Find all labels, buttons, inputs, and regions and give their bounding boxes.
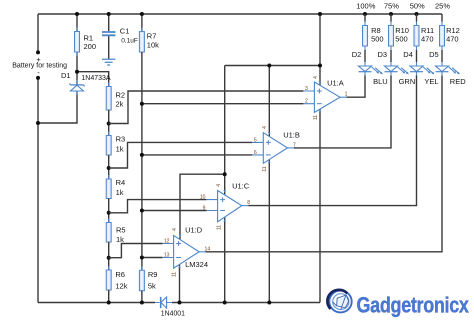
- resistor R1: [75, 28, 97, 57]
- svg-text:2: 2: [305, 99, 308, 105]
- node tap1 R2/R3: [107, 122, 111, 126]
- node D1 anode to rail junction: [36, 121, 40, 125]
- node V+ bus U1:B: [267, 64, 271, 68]
- svg-text:R4: R4: [116, 178, 126, 187]
- wire R9 top to U1:D pin13: [142, 257, 163, 259]
- wire R6 bottom to rail: [108, 290, 110, 303]
- wire sense to U1:B pin6: [142, 154, 252, 156]
- node rail U1:D gnd: [178, 301, 182, 305]
- node battery + terminal: [36, 50, 40, 54]
- svg-text:470: 470: [446, 34, 459, 43]
- node rail U1:B gnd: [267, 301, 271, 305]
- diode D1 zener 1N4733A: [61, 71, 111, 95]
- wire bottom rail right of diode: [172, 302, 320, 304]
- resistor R12: [440, 14, 460, 50]
- svg-text:2k: 2k: [116, 99, 124, 108]
- node rail R9: [140, 301, 144, 305]
- wire R7 column top: [141, 14, 143, 32]
- wire V+ bus: [225, 65, 320, 67]
- node top rail R10: [389, 12, 393, 16]
- svg-text:1N4001: 1N4001: [161, 310, 185, 317]
- node zener cathode junction: [75, 70, 79, 74]
- wire tap3 to U1:C pin10: [109, 200, 207, 213]
- svg-text:50%: 50%: [410, 2, 425, 11]
- wire U1:D pin4 jog: [180, 174, 225, 239]
- node top rail R8: [363, 12, 367, 16]
- svg-text:D4: D4: [403, 50, 413, 59]
- svg-text:GRN: GRN: [399, 77, 416, 86]
- svg-text:Gadgetronicx: Gadgetronicx: [357, 294, 470, 318]
- resistor R8: [363, 14, 384, 50]
- svg-text:RED: RED: [450, 77, 466, 86]
- node sense pin9: [140, 209, 144, 213]
- wire R1 column top: [76, 14, 78, 32]
- svg-text:D1: D1: [61, 71, 71, 80]
- svg-text:12: 12: [164, 238, 170, 244]
- svg-text:1k: 1k: [116, 188, 124, 197]
- svg-text:BLU: BLU: [373, 77, 388, 86]
- wire U1:B pin11 to rail: [268, 159, 270, 302]
- resistor R6: [106, 266, 128, 294]
- wire U1:D pin11 to rail: [179, 264, 181, 302]
- svg-text:500: 500: [371, 34, 384, 43]
- resistor R5: [106, 219, 125, 247]
- wire bottom rail left of diode: [38, 302, 155, 304]
- svg-text:11: 11: [217, 225, 223, 230]
- svg-text:U1:B: U1:B: [283, 131, 300, 140]
- svg-text:25%: 25%: [435, 2, 450, 11]
- wire sense to U1:A pin2: [142, 103, 304, 105]
- svg-text:1k: 1k: [116, 144, 124, 153]
- wire U1:C output to D4: [248, 76, 416, 206]
- svg-text:10k: 10k: [147, 41, 159, 50]
- wire U1:A pin4 column: [319, 14, 321, 85]
- op-amp U1:C: [200, 181, 250, 230]
- svg-text:5k: 5k: [148, 282, 156, 291]
- node U1:C pin4 / U1:D branch: [223, 172, 227, 176]
- capacitor C1: [102, 14, 138, 59]
- svg-text:9: 9: [203, 205, 206, 211]
- node V+ bus U1:A: [318, 64, 322, 68]
- op-amp U1:A: [303, 76, 347, 120]
- wire U1:B pin4 drop: [268, 66, 270, 137]
- svg-text:U1:A: U1:A: [327, 78, 344, 87]
- svg-text:13: 13: [164, 252, 170, 258]
- svg-text:500: 500: [395, 34, 408, 43]
- diode D6 1N4001 on negative rail: [155, 297, 185, 317]
- svg-text:R5: R5: [116, 225, 126, 234]
- resistor R4: [106, 175, 125, 203]
- wire U1:C pin4 drop: [224, 66, 226, 196]
- node rail U1:C gnd: [223, 301, 227, 305]
- svg-text:12k: 12k: [115, 282, 127, 291]
- svg-text:11: 11: [171, 272, 177, 277]
- svg-text:R7: R7: [147, 32, 157, 41]
- node rail R6: [107, 301, 111, 305]
- node tap4 R5/R6: [107, 256, 111, 260]
- wire zener node to R2 top: [77, 72, 109, 87]
- node top rail R7: [140, 12, 144, 16]
- resistor R3: [106, 132, 125, 160]
- wire R9 bottom to rail: [141, 291, 143, 303]
- node top rail R11: [415, 12, 419, 16]
- svg-text:R3: R3: [116, 134, 126, 143]
- logo gadgetronicx text: [357, 294, 470, 318]
- svg-text:4: 4: [216, 184, 222, 187]
- op-amp U1:B: [252, 126, 300, 172]
- svg-text:D3: D3: [378, 50, 388, 59]
- svg-text:U1:C: U1:C: [232, 181, 250, 190]
- wire tap4 to U1:D pin12: [109, 244, 163, 258]
- LED D2: [352, 50, 388, 86]
- svg-text:470: 470: [421, 34, 434, 43]
- resistor R11: [414, 14, 434, 50]
- wire tap2 to U1:B pin5: [109, 142, 253, 168]
- wire battery sense column R7 bottom to R9 top: [141, 52, 143, 270]
- svg-text:75%: 75%: [384, 2, 399, 11]
- svg-text:D2: D2: [352, 50, 362, 59]
- svg-text:R9: R9: [148, 270, 158, 279]
- svg-text:YEL: YEL: [424, 77, 438, 86]
- svg-text:4: 4: [172, 228, 178, 231]
- wire top rail: [38, 13, 442, 15]
- svg-text:100%: 100%: [356, 2, 376, 11]
- wire zener anode down and left to negative rail: [38, 91, 77, 123]
- svg-text:10: 10: [200, 195, 206, 201]
- resistor R2: [106, 83, 125, 115]
- svg-text:1N4733A: 1N4733A: [81, 75, 111, 82]
- svg-text:11: 11: [262, 166, 268, 171]
- resistor R10: [389, 14, 409, 50]
- svg-text:0.1uF: 0.1uF: [121, 38, 138, 45]
- resistor R9: [139, 266, 157, 294]
- svg-text:6: 6: [254, 150, 257, 156]
- node top rail V+: [318, 12, 322, 16]
- ground under C1: [102, 59, 115, 65]
- resistor R7: [139, 28, 159, 56]
- logo gadgetronicx icon: [327, 290, 351, 313]
- svg-text:R2: R2: [116, 90, 126, 99]
- svg-text:4: 4: [313, 76, 319, 79]
- wire left rail upper (battery +): [37, 14, 39, 52]
- svg-text:11: 11: [313, 115, 319, 120]
- LED D3: [378, 50, 416, 86]
- svg-text:D5: D5: [429, 50, 439, 59]
- svg-text:LM324: LM324: [185, 260, 208, 269]
- node sense pin13 / R9 top: [140, 256, 144, 260]
- wire R5 to R6: [108, 242, 110, 270]
- node tap3 R4/R5: [107, 211, 111, 215]
- wire U1:A pin11 to rail: [319, 109, 321, 303]
- wire U1:A output to D2: [347, 76, 366, 98]
- wire left rail lower (battery -): [37, 78, 39, 303]
- node top rail R1: [75, 12, 79, 16]
- svg-text:1k: 1k: [116, 235, 124, 244]
- node battery - terminal: [36, 76, 40, 80]
- node sense pin2: [140, 102, 144, 106]
- svg-text:3: 3: [305, 86, 308, 92]
- svg-text:5: 5: [254, 137, 257, 143]
- node sense pin6: [140, 153, 144, 157]
- wire R1 bottom to zener node: [76, 52, 78, 85]
- svg-text:R6: R6: [115, 270, 125, 279]
- wire tap1 to U1:A pin3: [109, 91, 304, 124]
- svg-text:4: 4: [262, 126, 268, 129]
- svg-text:U1:D: U1:D: [185, 225, 203, 234]
- svg-text:Battery for testing: Battery for testing: [12, 63, 67, 70]
- svg-text:C1: C1: [120, 27, 130, 36]
- node tap2 R3/R4: [107, 166, 111, 170]
- LED D5: [429, 50, 466, 86]
- LED D4: [403, 50, 438, 86]
- op-amp U1:D: [163, 225, 211, 277]
- wire R2 to R3: [108, 110, 110, 136]
- wire sense to U1:C pin9: [142, 210, 207, 212]
- svg-text:200: 200: [84, 42, 97, 51]
- wire U1:D output to D5: [206, 76, 443, 252]
- wire U1:C pin11 to rail: [224, 217, 226, 302]
- wire R3 to R4: [108, 155, 110, 179]
- node top rail C1: [107, 12, 111, 16]
- wire R4 to R5: [108, 199, 110, 223]
- wire U1:B output to D3: [294, 76, 391, 148]
